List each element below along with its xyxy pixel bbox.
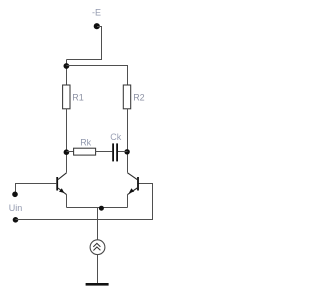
node junction Ck tap right — [124, 149, 129, 154]
wire emitter Q1 down — [66, 195, 68, 208]
resistor R1 — [63, 85, 70, 109]
transistor Q1 (left NPN) — [56, 173, 66, 195]
wire input terminal up — [15, 184, 17, 195]
transistor Q2 (right NPN, mirrored) — [128, 173, 139, 195]
node emitter junction — [99, 206, 104, 211]
node junction rail/R1 — [64, 63, 70, 69]
wire R2 to collector T2 — [127, 109, 129, 173]
terminal input lower — [13, 217, 19, 223]
current source I1 — [90, 240, 105, 255]
resistor R2 — [123, 85, 130, 109]
terminal input upper — [12, 192, 18, 198]
svg-text:-E: -E — [92, 7, 101, 17]
wire Rk to Ck — [96, 151, 113, 153]
wire lower input to base Q2 — [16, 184, 153, 220]
svg-text:R2: R2 — [133, 93, 145, 103]
terminal -E — [94, 23, 100, 29]
wire node to Rk — [67, 151, 74, 153]
wire emitter rail — [67, 207, 128, 209]
wire -E terminal to rail — [67, 27, 102, 60]
svg-text:Uin: Uin — [9, 203, 23, 213]
wire rail down to R1 — [66, 60, 68, 86]
wire base Q1 to input — [15, 183, 56, 185]
wire rail to R2 — [67, 66, 128, 86]
capacitor Ck — [112, 143, 118, 161]
node junction Rk tap left — [64, 149, 70, 155]
wire Ck to node — [118, 151, 128, 153]
wire to current source — [97, 208, 99, 240]
svg-text:R1: R1 — [72, 92, 84, 102]
wire current source to ground — [97, 255, 99, 284]
svg-text:Rk: Rk — [80, 138, 91, 148]
wire emitter Q2 down — [127, 195, 129, 208]
resistor Rk — [74, 148, 96, 155]
svg-text:Ck: Ck — [110, 132, 121, 142]
ground — [86, 283, 109, 286]
wire R1 to collector T1 — [66, 109, 68, 173]
